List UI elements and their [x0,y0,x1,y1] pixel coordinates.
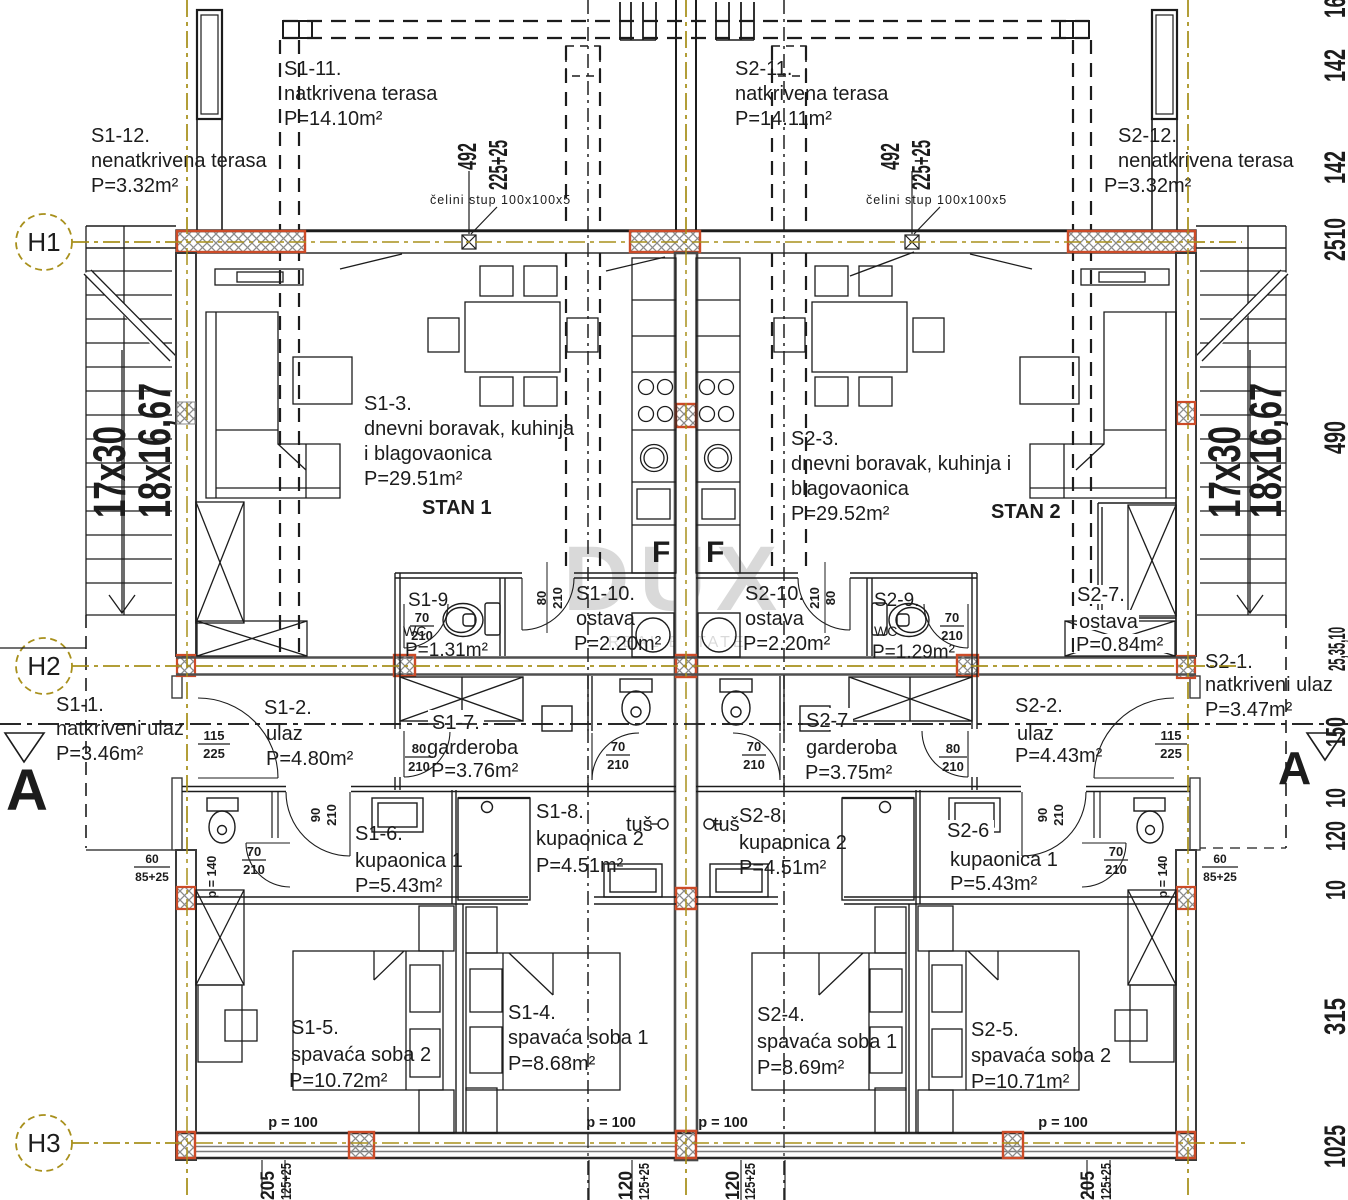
door arc S1-6 toilet [246,843,290,887]
wall service strip top right [696,562,977,633]
wall kupaonica2 left divider [588,676,592,790]
party wall [675,253,697,1160]
stair break line [84,270,176,363]
svg-text:nenatkrivena terasa: nenatkrivena terasa [91,150,268,172]
svg-text:F: F [652,536,670,569]
stair text [1199,383,1291,518]
label S2-12 [1104,125,1295,197]
svg-text:S1-9: S1-9 [408,590,448,611]
closet X garderoba S1-7 [400,677,523,721]
label S2-7 ostava [1074,584,1168,656]
label S2-6 [944,820,1058,895]
svg-text:60: 60 [1213,852,1227,866]
svg-text:S1-8.: S1-8. [536,801,584,823]
SERVICE STRIP FIXTURES [404,578,968,657]
shoe cabinet X right [1065,621,1175,656]
svg-text:F: F [706,536,724,569]
svg-text:S2-4.: S2-4. [757,1004,805,1026]
label S2-9 [872,590,955,663]
axis grid vertical left [186,0,188,1200]
BEDROOM FURNITURE LEFT [196,890,620,1133]
svg-text:S2-8.: S2-8. [739,805,787,827]
axis H3 horizontal [72,1142,1245,1144]
wardrobe X right (S2-7 ostava) [1128,505,1176,616]
svg-text:2510: 2510 [1319,218,1348,261]
svg-text:490: 490 [1319,421,1348,454]
svg-text:492: 492 [452,143,482,170]
column H3-center hatched [676,1131,696,1158]
wall bath-bedroom left [196,897,676,904]
property axis x784 [783,0,785,1200]
shoe cabinet X left [197,621,307,656]
svg-text:P=8.68m²: P=8.68m² [508,1053,596,1075]
svg-text:H3: H3 [27,1128,60,1158]
dim 90/210 rotated bath right [1035,804,1066,826]
door arc kupaonica2 S2-8 [733,733,780,780]
column H3-left hatched [177,1132,195,1158]
wall hall bottom left [182,787,676,792]
dining chairs right [774,266,944,406]
dim 70/210 k2 right [742,739,766,772]
door arc WC S2-9 [924,604,968,648]
roof outline dashed top line2 [283,37,1089,39]
BATHROOM FIXTURES [207,792,1165,900]
wall service strip top left [395,562,676,633]
nightstand S1-5 bottom [419,1090,454,1133]
stool S1-7 [542,706,572,731]
column H3-b hatched [1003,1132,1023,1158]
axis overlay vertical center [685,0,687,1200]
label S1-10 [574,583,662,655]
column party kitchen hatched [676,404,696,427]
svg-text:čelini stup 100x100x5: čelini stup 100x100x5 [866,193,1007,207]
toilet kupaonica2 S1-8 [620,679,652,725]
STEEL POSTS [462,171,940,249]
bed S2-4 [752,953,906,1090]
party wall above H1 [676,0,696,231]
column right H2 hatched [1177,656,1195,678]
dim p100 labels [268,1115,1088,1131]
dim 80/210 rotated closet right [807,587,838,609]
svg-text:210: 210 [807,587,822,609]
svg-text:garderoba: garderoba [427,737,519,759]
svg-text:kupaonica 1: kupaonica 1 [950,849,1058,871]
RIGHT DIMENSION COLUMN [1319,0,1348,1168]
section marker A left [5,733,48,823]
label S2-7 garderoba [803,708,898,784]
dim 70/210 wc right [940,610,964,643]
svg-text:85+25: 85+25 [135,870,169,884]
door arc garderoba S2-7 [922,731,968,777]
wall garderoba right vertical [972,573,977,790]
stair bottom edge [1196,614,1286,616]
svg-text:90: 90 [308,808,323,822]
label S1-1 [56,694,184,765]
svg-text:kupaonica 1: kupaonica 1 [355,850,463,872]
svg-text:kupaonica 2: kupaonica 2 [739,832,847,854]
label S1-12 [91,125,268,197]
stair treads [86,271,172,583]
nightstand S2-4 bottom [875,1088,906,1133]
svg-text:S1-12.: S1-12. [91,125,150,147]
svg-text:210: 210 [607,757,629,772]
terrace door swing left-a [340,254,402,269]
column H2-a hatched [394,655,415,676]
stair break line [1196,270,1288,363]
STAIRS LEFT [0,226,180,850]
svg-text:ostava: ostava [745,608,805,630]
svg-text:210: 210 [743,757,765,772]
svg-text:P=29.52m²: P=29.52m² [791,503,890,525]
toilet kupaonica2 S2-8 [720,679,752,725]
svg-text:P=2.20m²: P=2.20m² [574,633,662,655]
roof corner bracket right [1060,21,1089,38]
wall bedroom divider right [909,904,916,1133]
svg-text:S2-10.: S2-10. [745,583,804,605]
stair walking divider [123,226,125,615]
label S1-9 [403,590,488,661]
sink left [641,445,668,472]
terrace dashed edge below stairs [85,615,87,848]
svg-text:spavaćasoba 1: spavaćasoba 1 [508,1027,649,1049]
svg-text:S2-2.: S2-2. [1015,695,1063,717]
svg-text:80: 80 [946,741,960,756]
column right mid hatched [1177,402,1195,424]
svg-text:P=29.51m²: P=29.51m² [364,468,463,490]
svg-text:210: 210 [942,759,964,774]
stair walking divider [1247,226,1249,615]
sofa right [1030,312,1176,498]
oven left [637,489,670,519]
terrace edge line left [86,849,176,851]
svg-text:čelini stup 100x100x5: čelini stup 100x100x5 [430,193,571,207]
svg-text:210: 210 [324,804,339,826]
washing machine S2-10 [698,613,740,657]
svg-text:S2-7.: S2-7. [1077,584,1125,606]
wall right entry lower [1190,778,1200,850]
svg-text:120: 120 [616,1171,637,1200]
svg-text:p = 140: p = 140 [205,856,219,899]
svg-text:142: 142 [1319,151,1348,184]
svg-text:S2-3.: S2-3. [791,428,839,450]
svg-text:225: 225 [1160,746,1182,761]
toilet S1-6 [207,798,238,843]
HALL / GARDEROBA FIXTURES [198,677,1174,780]
svg-text:p = 100: p = 100 [698,1115,748,1131]
dim 115/225 right [1155,728,1187,761]
dim 115/225 left [198,728,230,761]
svg-text:tuš: tuš [626,814,653,836]
toilet S2-9 [872,603,929,637]
wall bedroom divider left [456,904,463,1133]
svg-text:80: 80 [823,591,838,605]
label S2-11 [735,58,889,130]
svg-text:315: 315 [1319,998,1348,1035]
svg-text:492: 492 [875,143,905,170]
column left mid2 hatched [177,887,195,909]
svg-text:p = 100: p = 100 [1038,1115,1088,1131]
svg-text:120: 120 [723,1171,744,1200]
bottom rotated dims [258,1163,1115,1200]
nightstand S1-5 top [419,906,454,951]
center pergola posts [620,2,754,40]
roof edge dashed vertical pair right-outer [1073,40,1091,656]
svg-text:150: 150 [1320,717,1348,747]
svg-text:P=4.43m²: P=4.43m² [1015,745,1103,767]
svg-text:S2-9.: S2-9. [874,590,919,611]
coffee table right [1020,357,1079,404]
svg-text:P=1.29m²: P=1.29m² [872,642,955,663]
tv bench right [1081,269,1169,285]
dim 60/85+25 right [1202,852,1238,884]
label S1-8 [536,801,644,877]
svg-text:10: 10 [1320,788,1348,808]
svg-text:ulaz: ulaz [266,723,303,745]
sink right [705,445,732,472]
svg-text:spavaća soba 1: spavaća soba 1 [757,1031,897,1053]
column left mid hatched [177,402,195,424]
node H2 [16,638,72,694]
window jamb ticks H3 [262,1160,1110,1200]
svg-text:H1: H1 [27,227,60,257]
svg-text:nenatkrivena terasa: nenatkrivena terasa [1118,150,1295,172]
column H3-a hatched [349,1132,374,1158]
wall bath divider left [452,790,456,904]
label S2-5 [971,1019,1111,1093]
svg-text:P=3.32m²: P=3.32m² [91,175,179,197]
SMALL DIMS [134,140,1238,1200]
coffee table left [293,357,352,404]
stair arrow [109,350,135,613]
svg-text:S2-6: S2-6 [947,820,989,842]
svg-text:p = 100: p = 100 [586,1115,636,1131]
shower S1-6 [458,798,530,900]
svg-text:210: 210 [941,628,963,643]
label S1-2 [264,697,354,770]
stool S2-7 [800,706,830,731]
wall H2 band [176,658,1196,675]
tv bench left [215,269,303,285]
label S2-8 [739,805,847,879]
door arc ostava S2-10 [798,578,850,630]
svg-text:P=0.84m²: P=0.84m² [1076,634,1164,656]
axis H1 horizontal [72,241,1242,243]
svg-text:210: 210 [550,587,565,609]
svg-text:S2-1.: S2-1. [1205,651,1253,673]
svg-text:P=3.75m²: P=3.75m² [805,762,893,784]
svg-text:18x16,67: 18x16,67 [1240,383,1291,518]
svg-text:P=3.76m²: P=3.76m² [431,760,519,782]
svg-text:dnevni boravak, kuhinja: dnevni boravak, kuhinja [364,418,575,440]
svg-text:natkriveni ulaz: natkriveni ulaz [56,718,184,740]
axis overlay vertical right [1187,0,1189,1200]
svg-text:60: 60 [145,852,159,866]
svg-text:142: 142 [1319,49,1348,82]
svg-text:120: 120 [1320,821,1348,851]
door arc S1-6 entry [286,792,350,856]
hob burners right [700,380,734,422]
svg-text:P=2.20m²: P=2.20m² [743,633,831,655]
dining table left [465,302,560,372]
dashed square right [772,46,806,76]
property axis x588 [587,0,589,1200]
svg-text:i blagovaonica: i blagovaonica [364,443,493,465]
wall right outer upper [1176,253,1196,656]
stair landing lines [86,225,176,227]
column H1 center hatched [630,231,700,252]
oven right [702,489,735,519]
ROOM LABELS LEFT UNIT [56,58,662,1092]
nightstand S1-4 top [466,907,497,953]
svg-text:P=4.51m²: P=4.51m² [739,857,827,879]
sink S1-6 [372,798,423,832]
wall right lower [1176,850,1196,1160]
wall bath divider right [916,790,920,904]
svg-text:tuš: tuš [713,814,740,836]
shower tray S2-8 [710,864,768,897]
svg-text:dnevni boravak, kuhinja i: dnevni boravak, kuhinja i [791,453,1011,475]
svg-text:ostava: ostava [576,608,636,630]
terrace pillar right [1152,10,1177,231]
dim celini stup left [430,140,571,207]
wall H1 band [176,230,1196,253]
toilet S2-6 [1134,798,1165,843]
svg-text:ulaz: ulaz [1017,723,1054,745]
wall bath-bedroom right [696,897,1176,904]
svg-text:70: 70 [611,739,625,754]
svg-text:S1-11.: S1-11. [284,58,341,80]
entry door S1-1 [198,698,278,778]
wall left lower [176,850,196,1160]
svg-text:125+25: 125+25 [278,1163,295,1200]
svg-text:115: 115 [1161,728,1182,743]
door arc kupaonica2 S1-8 [592,733,639,780]
stair left boundary [85,226,87,615]
svg-text:spavaća soba 2: spavaća soba 2 [971,1045,1111,1067]
svg-text:P=3.46m²: P=3.46m² [56,743,144,765]
dim 70/210 bath right [1104,844,1128,877]
axis overlay H3 [72,1142,1245,1144]
svg-text:1025: 1025 [1319,1125,1348,1168]
stair text [84,383,180,518]
svg-text:S1-3.: S1-3. [364,393,412,415]
wall left outer upper [176,253,196,656]
svg-text:natkriveni ulaz: natkriveni ulaz [1205,674,1333,696]
wall hall bottom right [696,787,1190,792]
nightstand S2-5 top [918,906,953,951]
svg-text:125+25: 125+25 [1098,1163,1115,1200]
svg-text:S2-7: S2-7 [806,710,848,732]
column party H2 hatched [676,655,696,677]
roof corner bracket left [283,21,312,38]
roof outline dashed top line1 [283,20,1089,22]
door arc ostava S1-10 [522,578,574,630]
svg-text:S1-6.: S1-6. [355,823,403,845]
svg-text:18x16,67: 18x16,67 [129,383,180,518]
entry door S2-1 [1094,698,1174,778]
svg-text:WC: WC [874,623,897,639]
steel post right [905,171,940,249]
roof edge dashed vertical pair left-outer [280,40,299,656]
door arc WC S1-9 [404,604,448,648]
svg-text:p = 140: p = 140 [1156,856,1170,899]
dim celini stup right [866,140,1007,207]
shower tray S1-8 [604,864,662,897]
column left H3 hatched [177,1132,195,1158]
svg-text:S1-7.: S1-7. [432,712,480,734]
counter outline right [696,258,740,573]
terrace dashed edge line right [1196,847,1286,849]
svg-text:225+25: 225+25 [906,140,936,190]
column party mid hatched [676,888,696,909]
label S1-3 [364,393,575,490]
section marker A right [1278,733,1343,794]
svg-text:210: 210 [408,759,430,774]
label S2-3 [791,428,1011,525]
terrace dashed edge below stairs right [1285,615,1287,848]
svg-text:P=4.80m²: P=4.80m² [266,748,354,770]
svg-text:natkrivena terasa: natkrivena terasa [284,83,438,105]
svg-text:205: 205 [258,1171,279,1200]
svg-text:S1-2.: S1-2. [264,697,312,719]
bed S1-5 [293,951,443,1090]
axis overlay H2 [72,665,1242,667]
column party H3 hatched [676,1131,696,1158]
svg-text:10: 10 [1320,880,1348,900]
svg-text:p = 100: p = 100 [268,1115,318,1131]
axis grid vertical center [685,0,687,1200]
wall left entry lower [172,778,182,850]
wall kupaonica2 right divider [780,676,784,790]
svg-text:STAN 2: STAN 2 [991,501,1061,523]
svg-text:P=10.71m²: P=10.71m² [971,1071,1070,1093]
wall right entry upper [1190,676,1200,698]
dim 70/210 bath left [242,844,266,877]
svg-text:210: 210 [1051,804,1066,826]
axis overlay vertical left [186,0,188,1200]
svg-text:17x30: 17x30 [84,426,135,518]
stair treads [1200,271,1286,583]
dashed square left [566,46,600,76]
node H3 [16,1115,72,1171]
sink S2-6 [949,798,1000,832]
shower head S2-8 [704,819,722,829]
svg-text:garderoba: garderoba [806,737,898,759]
svg-text:70: 70 [747,739,761,754]
STAIRS RIGHT [1196,226,1291,848]
terrace door swing left-b [606,257,665,271]
svg-text:210: 210 [243,862,265,877]
label S2-4 [757,1004,897,1079]
svg-text:P=10.72m²: P=10.72m² [289,1070,388,1092]
INTERIOR WALLS [182,503,1190,1133]
KITCHEN LEFT [632,258,676,573]
LIVING FURNITURE LEFT [196,254,665,656]
hob burners left [639,380,673,422]
label S1-5 [289,1017,431,1092]
terrace pillar left [197,10,222,231]
watermark DUX [563,528,787,651]
wall H3 band [176,1132,1196,1159]
washing machine S1-10 [632,613,674,657]
svg-text:205: 205 [1078,1171,1099,1200]
svg-text:125+25: 125+25 [742,1163,759,1200]
label S1-4 [508,1002,649,1075]
roof edge dashed vertical pair left-inner [566,46,600,573]
column right mid2 hatched [1177,887,1195,909]
walkway line left [0,647,86,649]
dim 90/210 rotated bath left [308,804,339,826]
